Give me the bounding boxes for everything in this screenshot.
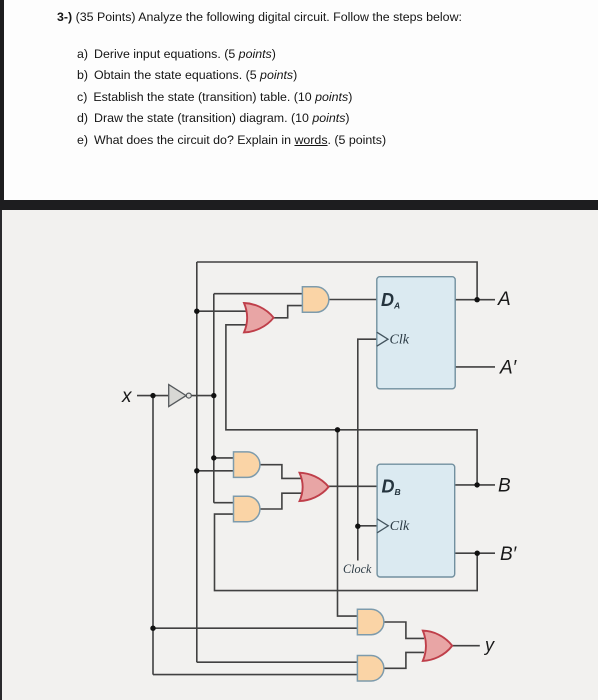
flip-flop DA bbox=[377, 277, 455, 389]
wire AND-B1 output to OR3 bbox=[384, 622, 424, 638]
left black strip bbox=[0, 0, 4, 200]
svg-text:x: x bbox=[121, 386, 133, 407]
wire output B bbox=[455, 484, 495, 486]
wire clock net bbox=[358, 339, 377, 560]
node A to AND-M1 bbox=[194, 468, 199, 473]
wire x-not vertical bbox=[213, 294, 215, 503]
wire AND-B1 bottom input bbox=[153, 627, 358, 629]
wire OR1 top input bbox=[197, 310, 250, 312]
OR gate OR1 bbox=[244, 303, 274, 332]
svg-text:Clk: Clk bbox=[390, 333, 410, 348]
OR gate OR3 bbox=[423, 631, 452, 661]
OR gate OR2 bbox=[300, 473, 329, 501]
wire AND1 top input bbox=[214, 293, 303, 295]
wire B to AND-B1 bbox=[338, 430, 359, 616]
problem items a-e bbox=[77, 44, 386, 151]
wire AND-B2 output to OR3 bbox=[384, 652, 424, 668]
wire AND-M1 output to OR2 bbox=[260, 465, 303, 479]
AND gate AND-M2 bbox=[234, 496, 260, 522]
node B output bbox=[474, 482, 479, 487]
thick black divider bar bbox=[0, 200, 598, 210]
AND gate AND-M1 bbox=[234, 452, 260, 478]
wire x net vertical bbox=[152, 396, 154, 675]
node A output bbox=[474, 297, 479, 302]
wire B-not loop to AND-M2 bbox=[215, 514, 478, 591]
node xnot to AND-M1 bbox=[211, 455, 216, 460]
node x branch bbox=[150, 393, 155, 398]
wire AND-B2 bottom input bbox=[153, 674, 358, 676]
wire inverter output bbox=[191, 395, 213, 397]
circuit background bbox=[0, 210, 598, 700]
svg-text:y: y bbox=[483, 635, 495, 655]
node clock to DB bbox=[355, 524, 360, 529]
AND gate AND-B2 bbox=[357, 656, 383, 682]
wire OR2 output to DB bbox=[327, 485, 377, 487]
wire AND-B2 top input bbox=[197, 661, 358, 663]
wire x input bbox=[137, 395, 168, 397]
thin black left edge below bar bbox=[0, 210, 2, 700]
wire AND-M2 output to OR2 bbox=[260, 493, 303, 509]
wire A net vertical bbox=[196, 262, 198, 662]
wire clock to DB clk bbox=[358, 525, 378, 527]
wire OR1 output to AND1 bbox=[273, 306, 303, 318]
svg-text:Clk: Clk bbox=[390, 519, 410, 534]
node inverter out bbox=[211, 393, 216, 398]
wire DA top feedback loop bbox=[197, 262, 477, 300]
wire AND-M1 top input bbox=[214, 457, 234, 459]
AND gate AND1 bbox=[302, 287, 328, 313]
problem title bbox=[57, 10, 462, 24]
svg-text:Clock: Clock bbox=[343, 562, 372, 576]
svg-text:A: A bbox=[497, 289, 511, 310]
node B-not output bbox=[475, 551, 480, 556]
wire output y bbox=[452, 645, 480, 647]
wire B net: OR1 bottom input loop bbox=[226, 325, 477, 485]
wire AND-M1 bottom input bbox=[197, 470, 234, 472]
inverter gate on x bbox=[169, 385, 192, 407]
wire AND-M2 top input bbox=[214, 502, 234, 504]
wire output A bbox=[455, 299, 495, 301]
node A to OR1 bbox=[194, 309, 199, 314]
svg-text:B′: B′ bbox=[500, 544, 518, 565]
node B branch bbox=[335, 427, 340, 432]
wire output A-prime bbox=[455, 366, 495, 368]
AND gate AND-B1 bbox=[357, 609, 383, 635]
svg-text:A′: A′ bbox=[499, 358, 518, 379]
wire AND1 output to DA bbox=[329, 299, 377, 301]
wire output B-prime bbox=[455, 552, 495, 554]
node x to AND-B1 bbox=[150, 626, 155, 631]
svg-text:B: B bbox=[498, 476, 511, 497]
flip-flop DB bbox=[377, 464, 455, 577]
